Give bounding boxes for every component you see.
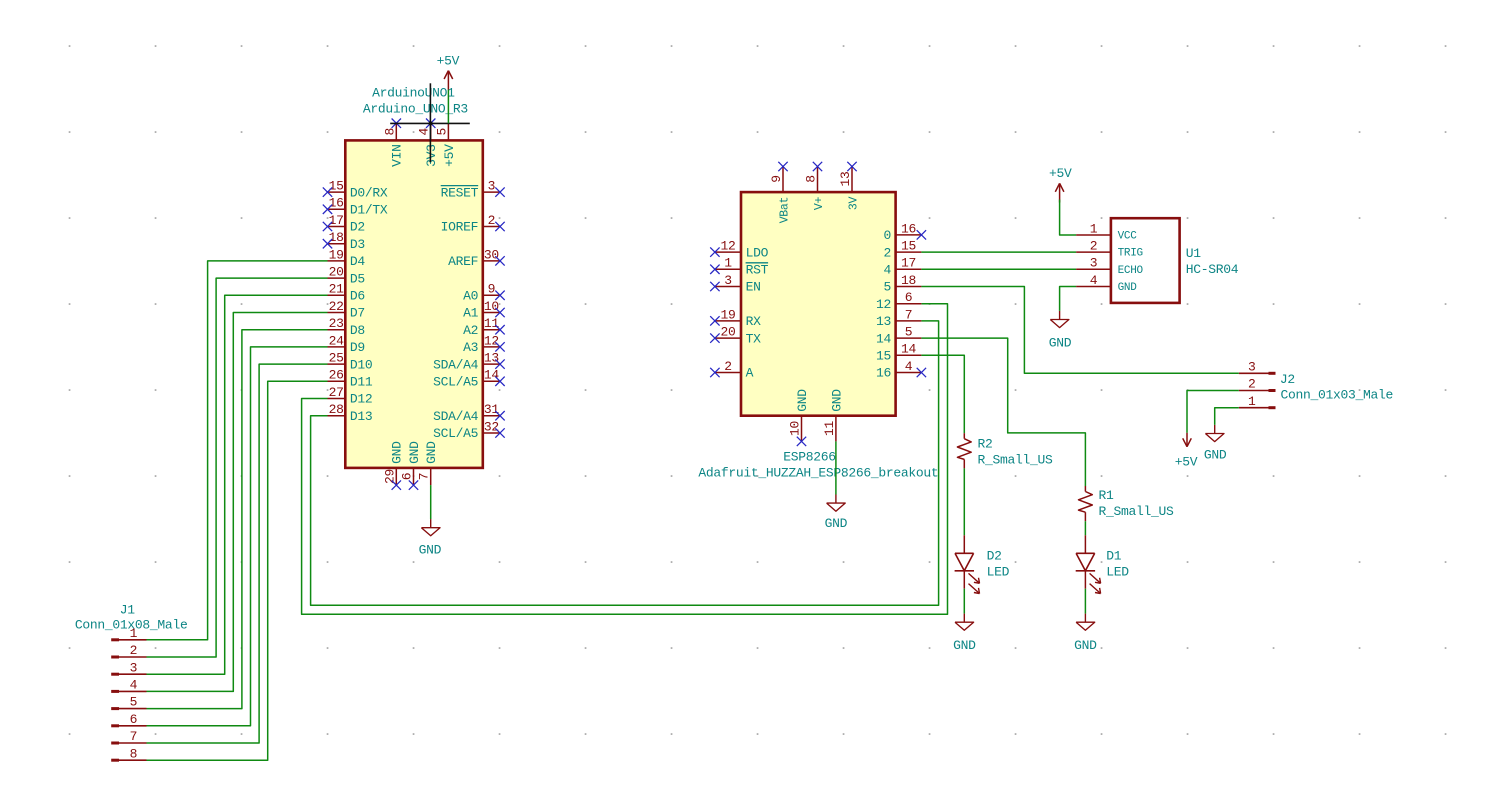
svg-text:14: 14 bbox=[876, 331, 892, 346]
svg-text:R_Small_US: R_Small_US bbox=[978, 452, 1054, 467]
power +5V symbol above U1 bbox=[1055, 183, 1064, 202]
GND label below ESP8266 bbox=[825, 516, 848, 531]
svg-text:1: 1 bbox=[1090, 221, 1098, 236]
svg-text:D2: D2 bbox=[350, 220, 365, 235]
ArduinoUNO1 left pins 15-28 (D0/RX..D13) bbox=[328, 192, 346, 416]
svg-text:LED: LED bbox=[1106, 564, 1129, 579]
power GND symbol below D1 bbox=[1076, 614, 1095, 631]
svg-text:10: 10 bbox=[788, 421, 803, 436]
svg-text:4: 4 bbox=[905, 359, 913, 374]
svg-text:5: 5 bbox=[883, 280, 891, 295]
ArduinoUNO1 bottom pin names GND GND GND bbox=[390, 441, 439, 464]
svg-text:3: 3 bbox=[1248, 359, 1256, 374]
svg-text:A0: A0 bbox=[463, 289, 478, 304]
component ESP8266 Adafruit_HUZZAH_ESP8266_breakout body bbox=[741, 192, 896, 416]
wire Arduino D10 (pin 25) to J1 pin 7 bbox=[147, 364, 328, 743]
svg-text:2: 2 bbox=[724, 359, 732, 374]
svg-text:5: 5 bbox=[130, 695, 138, 710]
ESP8266 bottom pin names GND GND bbox=[795, 389, 844, 412]
ESP8266 left pin numbers bbox=[720, 239, 735, 374]
svg-text:5: 5 bbox=[905, 325, 913, 340]
svg-text:30: 30 bbox=[484, 247, 499, 262]
svg-text:D3: D3 bbox=[350, 237, 365, 252]
svg-text:J2: J2 bbox=[1280, 372, 1295, 387]
black graphic line vertical through pin 4 bbox=[429, 83, 431, 162]
svg-text:R1: R1 bbox=[1099, 488, 1115, 503]
svg-text:16: 16 bbox=[329, 196, 344, 211]
svg-text:A2: A2 bbox=[463, 323, 478, 338]
svg-text:D11: D11 bbox=[350, 375, 373, 390]
LED D1 bbox=[1076, 535, 1101, 593]
svg-text:ArduinoUNO1: ArduinoUNO1 bbox=[372, 86, 455, 101]
svg-text:IOREF: IOREF bbox=[441, 220, 479, 235]
svg-text:A3: A3 bbox=[463, 340, 478, 355]
svg-text:GND: GND bbox=[795, 389, 810, 412]
svg-text:Arduino_UNO_R3: Arduino_UNO_R3 bbox=[363, 101, 468, 116]
U1 pin names VCC TRIG ECHO GND bbox=[1118, 231, 1144, 295]
svg-text:SCL/A5: SCL/A5 bbox=[433, 375, 478, 390]
junction dot at pin 4 crossing bbox=[429, 121, 433, 125]
svg-text:GND: GND bbox=[825, 516, 848, 531]
svg-text:4: 4 bbox=[883, 263, 891, 278]
svg-text:11: 11 bbox=[822, 420, 837, 436]
ArduinoUNO1 value label Arduino_UNO_R3 bbox=[363, 101, 468, 116]
ArduinoUNO1 right pin names (RESET with overline) bbox=[433, 185, 479, 441]
component J2 Conn_01x03_Male bbox=[1239, 372, 1276, 409]
ESP8266 top pins VBat V+ 3V bbox=[783, 167, 852, 193]
svg-text:J1: J1 bbox=[120, 603, 136, 618]
svg-text:GND: GND bbox=[1204, 447, 1227, 462]
svg-text:24: 24 bbox=[329, 333, 345, 348]
svg-text:R2: R2 bbox=[978, 437, 993, 452]
svg-text:6: 6 bbox=[905, 290, 913, 305]
ArduinoUNO1 top pin names VIN 3V3 +5V bbox=[390, 144, 457, 167]
svg-text:31: 31 bbox=[484, 402, 500, 417]
svg-text:D13: D13 bbox=[350, 409, 373, 424]
svg-text:15: 15 bbox=[329, 179, 344, 194]
svg-text:Conn_01x03_Male: Conn_01x03_Male bbox=[1281, 388, 1394, 403]
ESP8266 reference label bbox=[783, 450, 836, 465]
svg-text:EN: EN bbox=[746, 280, 761, 295]
ArduinoUNO1 right pin numbers bbox=[484, 179, 500, 435]
J2 reference label bbox=[1280, 372, 1295, 387]
component U1 HC-SR04 body bbox=[1111, 218, 1180, 303]
svg-text:D0/RX: D0/RX bbox=[350, 185, 388, 200]
D1 value label LED bbox=[1106, 564, 1129, 579]
R1 value label R_Small_US bbox=[1099, 504, 1175, 519]
svg-text:4: 4 bbox=[1090, 273, 1098, 288]
ESP8266 top pin numbers 9 8 13 bbox=[769, 171, 853, 186]
svg-text:D5: D5 bbox=[350, 271, 365, 286]
U1 value label HC-SR04 bbox=[1186, 262, 1239, 277]
svg-text:15: 15 bbox=[876, 349, 891, 364]
wire Arduino D11 (pin 26) to J1 pin 8 bbox=[147, 381, 328, 760]
J1 reference label bbox=[120, 603, 136, 618]
svg-text:7: 7 bbox=[905, 307, 913, 322]
power GND symbol below U1 bbox=[1050, 311, 1069, 328]
svg-text:21: 21 bbox=[329, 282, 345, 297]
ArduinoUNO1 reference label bbox=[372, 86, 455, 101]
svg-text:Adafruit_HUZZAH_ESP8266_breako: Adafruit_HUZZAH_ESP8266_breakout bbox=[698, 466, 938, 481]
+5V label above U1 bbox=[1049, 166, 1072, 181]
wire +5V to U1 VCC bbox=[1060, 200, 1077, 236]
wire Arduino D13 (pin 28) to ESP8266 pin 13 bbox=[311, 321, 939, 605]
wire J2 pin 2 to +5V bbox=[1187, 391, 1239, 433]
svg-text:RX: RX bbox=[746, 314, 762, 329]
U1 reference label bbox=[1186, 246, 1202, 261]
svg-text:RST: RST bbox=[746, 263, 769, 278]
svg-text:12: 12 bbox=[720, 239, 735, 254]
svg-text:27: 27 bbox=[329, 385, 344, 400]
svg-text:3: 3 bbox=[1090, 256, 1098, 271]
svg-text:GND: GND bbox=[829, 389, 844, 412]
svg-text:V+: V+ bbox=[813, 196, 826, 210]
no-connect x on ESP8266 left pins bbox=[710, 247, 719, 377]
svg-text:GND: GND bbox=[419, 543, 442, 558]
svg-text:+5V: +5V bbox=[1049, 166, 1072, 181]
wire ESP8266 pin 14 to R1 bbox=[921, 338, 1085, 486]
U1 pin numbers 1-4 bbox=[1090, 221, 1098, 288]
J1 value label Conn_01x08_Male bbox=[75, 618, 188, 633]
wire Arduino D4 (pin 19) to J1 pin 1 bbox=[147, 261, 328, 640]
wire LED D1 cathode to GND bbox=[1084, 589, 1086, 614]
wire +5V to Arduino pin 5 bbox=[447, 90, 449, 124]
svg-text:SCL/A5: SCL/A5 bbox=[433, 426, 478, 441]
svg-text:GND: GND bbox=[407, 441, 422, 464]
GND label for J2 pin 1 bbox=[1204, 447, 1227, 462]
svg-text:3: 3 bbox=[724, 273, 732, 288]
svg-text:VBat: VBat bbox=[778, 197, 791, 223]
ESP8266 bottom pins GND 10 11 bbox=[802, 416, 836, 442]
svg-text:2: 2 bbox=[1090, 239, 1098, 254]
svg-text:RESET: RESET bbox=[441, 185, 479, 200]
svg-text:6: 6 bbox=[400, 473, 415, 481]
svg-text:8: 8 bbox=[382, 128, 397, 136]
no-connect x on ArduinoUNO1 pins 15-18 bbox=[323, 187, 332, 248]
U1 pins VCC TRIG ECHO GND bbox=[1076, 235, 1111, 287]
svg-text:D9: D9 bbox=[350, 340, 365, 355]
D2 reference label bbox=[987, 549, 1002, 564]
svg-text:+5V: +5V bbox=[442, 144, 457, 167]
wire ESP8266 pin 5 to J2 pin 3 bbox=[921, 287, 1238, 374]
wire U1 GND pin to GND symbol bbox=[1060, 287, 1077, 311]
svg-text:D4: D4 bbox=[350, 254, 366, 269]
svg-text:7: 7 bbox=[417, 473, 432, 481]
J2 value label Conn_01x03_Male bbox=[1281, 388, 1394, 403]
ESP8266 left pins LDO RST EN RX TX A bbox=[715, 252, 741, 372]
no-connect x on ArduinoUNO1 pins 8 and 4 bbox=[392, 119, 436, 128]
resistor R2 bbox=[957, 433, 971, 468]
wire Arduino D7 (pin 22) to J1 pin 4 bbox=[147, 313, 328, 692]
svg-text:ESP8266: ESP8266 bbox=[783, 450, 836, 465]
svg-text:+5V: +5V bbox=[437, 53, 460, 68]
svg-text:1: 1 bbox=[724, 256, 732, 271]
ESP8266 value label Adafruit_HUZZAH_ESP8266_breakout bbox=[698, 466, 938, 481]
wire Arduino D6 (pin 21) to J1 pin 3 bbox=[147, 295, 328, 674]
svg-text:3V: 3V bbox=[847, 196, 860, 210]
svg-text:A1: A1 bbox=[463, 306, 479, 321]
resistor R1 bbox=[1079, 486, 1093, 521]
svg-text:16: 16 bbox=[901, 221, 916, 236]
ESP8266 right pin numbers bbox=[901, 221, 917, 374]
R1 reference label bbox=[1099, 488, 1115, 503]
svg-text:D2: D2 bbox=[987, 549, 1002, 564]
svg-text:28: 28 bbox=[329, 402, 344, 417]
GND label for U1 ground bbox=[1049, 336, 1072, 351]
svg-text:AREF: AREF bbox=[448, 254, 478, 269]
power +5V symbol (inverted) for J2 pin 2 bbox=[1183, 433, 1192, 447]
svg-text:HC-SR04: HC-SR04 bbox=[1186, 262, 1239, 277]
svg-text:D12: D12 bbox=[350, 392, 373, 407]
svg-text:D1: D1 bbox=[1106, 549, 1122, 564]
svg-text:+5V: +5V bbox=[1175, 454, 1198, 469]
svg-text:5: 5 bbox=[434, 128, 449, 136]
svg-text:D1/TX: D1/TX bbox=[350, 203, 388, 218]
svg-text:8: 8 bbox=[804, 175, 819, 183]
svg-text:19: 19 bbox=[329, 247, 344, 262]
svg-text:GND: GND bbox=[424, 441, 439, 464]
svg-text:8: 8 bbox=[130, 746, 138, 761]
GND label below D1 bbox=[1074, 638, 1097, 653]
svg-text:22: 22 bbox=[329, 299, 344, 314]
no-connect x on ESP8266 top pins bbox=[778, 162, 856, 171]
svg-text:VIN: VIN bbox=[390, 144, 405, 167]
svg-text:VCC: VCC bbox=[1118, 231, 1138, 243]
power GND symbol below D2 bbox=[955, 614, 974, 631]
wire R1 to LED D1 bbox=[1084, 521, 1086, 535]
LED D2 bbox=[955, 535, 980, 593]
svg-text:ECHO: ECHO bbox=[1118, 265, 1144, 277]
wire Arduino D5 (pin 20) to J1 pin 2 bbox=[147, 278, 328, 657]
+5V label below J2 pin 2 symbol bbox=[1175, 454, 1198, 469]
power GND symbol below ArduinoUNO1 bbox=[421, 519, 440, 536]
svg-text:SDA/A4: SDA/A4 bbox=[433, 357, 479, 372]
svg-text:D8: D8 bbox=[350, 323, 365, 338]
svg-text:4: 4 bbox=[417, 128, 432, 136]
power GND symbol below ESP8266 bbox=[827, 495, 846, 512]
wire ESP8266 pin 11 to GND bbox=[835, 441, 837, 494]
wire Arduino D8 (pin 23) to J1 pin 5 bbox=[147, 330, 328, 709]
svg-text:19: 19 bbox=[720, 307, 735, 322]
svg-text:18: 18 bbox=[329, 230, 344, 245]
ArduinoUNO1 left pin numbers 15-28 bbox=[329, 179, 345, 418]
wire ESP8266 pin 4 to U1 ECHO bbox=[921, 268, 1076, 270]
svg-text:D10: D10 bbox=[350, 357, 373, 372]
svg-text:D6: D6 bbox=[350, 289, 365, 304]
svg-text:26: 26 bbox=[329, 368, 344, 383]
J2 pin numbers 3 2 1 bbox=[1248, 359, 1256, 408]
svg-text:11: 11 bbox=[484, 316, 500, 331]
no-connect x on ESP8266 pin 10 bbox=[797, 437, 806, 446]
D2 value label LED bbox=[987, 564, 1010, 579]
svg-text:2: 2 bbox=[130, 643, 138, 658]
svg-text:TX: TX bbox=[746, 331, 762, 346]
wire Arduino D9 (pin 24) to J1 pin 6 bbox=[147, 347, 328, 726]
svg-text:0: 0 bbox=[883, 228, 891, 243]
svg-text:6: 6 bbox=[130, 712, 138, 727]
svg-text:16: 16 bbox=[876, 366, 891, 381]
svg-text:13: 13 bbox=[838, 171, 853, 186]
svg-text:2: 2 bbox=[1248, 377, 1256, 392]
svg-text:17: 17 bbox=[901, 256, 916, 271]
svg-text:14: 14 bbox=[901, 342, 917, 357]
no-connect x on ArduinoUNO1 right pins bbox=[495, 187, 504, 437]
ArduinoUNO1 top pin numbers 8 4 5 bbox=[382, 128, 449, 136]
svg-text:10: 10 bbox=[484, 299, 499, 314]
svg-text:4: 4 bbox=[130, 678, 138, 693]
svg-text:2: 2 bbox=[488, 213, 496, 228]
wire Arduino D12 (pin 27) to ESP8266 pin 12 bbox=[302, 304, 948, 615]
svg-text:12: 12 bbox=[876, 297, 891, 312]
ArduinoUNO1 bottom pin numbers 29 6 7 bbox=[382, 469, 431, 484]
ESP8266 top pin names VBat V+ 3V bbox=[778, 196, 860, 223]
svg-text:GND: GND bbox=[953, 638, 976, 653]
svg-text:U1: U1 bbox=[1186, 246, 1202, 261]
svg-text:3: 3 bbox=[130, 660, 138, 675]
svg-text:1: 1 bbox=[1248, 394, 1256, 409]
svg-text:LED: LED bbox=[987, 564, 1010, 579]
wire LED D2 cathode to GND bbox=[963, 589, 965, 614]
svg-text:12: 12 bbox=[484, 333, 499, 348]
R2 value label R_Small_US bbox=[978, 452, 1054, 467]
J1 pin numbers 1-8 bbox=[130, 626, 138, 761]
wire ESP8266 pin 15 to R2 bbox=[921, 355, 964, 433]
svg-text:7: 7 bbox=[130, 729, 138, 744]
svg-text:GND: GND bbox=[1049, 336, 1072, 351]
svg-text:3V3: 3V3 bbox=[424, 144, 439, 167]
svg-text:9: 9 bbox=[488, 282, 496, 297]
GND label below D2 bbox=[953, 638, 976, 653]
svg-text:18: 18 bbox=[901, 273, 916, 288]
ESP8266 right pin names bbox=[876, 228, 892, 381]
svg-text:17: 17 bbox=[329, 213, 344, 228]
svg-text:32: 32 bbox=[484, 419, 499, 434]
component J1 Conn_01x08_Male bbox=[111, 638, 146, 761]
svg-text:GND: GND bbox=[390, 441, 405, 464]
svg-text:LDO: LDO bbox=[746, 245, 769, 260]
svg-text:20: 20 bbox=[720, 325, 735, 340]
wire ESP8266 pin 2 to U1 TRIG bbox=[921, 251, 1076, 253]
svg-text:3: 3 bbox=[488, 179, 496, 194]
black graphic line horizontal over Arduino top pins bbox=[390, 122, 470, 124]
svg-text:2: 2 bbox=[883, 245, 891, 260]
D1 reference label bbox=[1106, 549, 1122, 564]
wire J2 pin 1 to GND bbox=[1215, 408, 1239, 425]
ArduinoUNO1 left pin names D0/RX..D13 bbox=[350, 185, 388, 424]
svg-text:GND: GND bbox=[1074, 638, 1097, 653]
ESP8266 left pin names (RST with overline) bbox=[746, 245, 769, 380]
wire R2 to LED D2 bbox=[963, 468, 965, 535]
power GND symbol for J2 pin 1 bbox=[1205, 425, 1224, 442]
no-connect x on ArduinoUNO1 pins 29 and 6 bbox=[392, 480, 419, 489]
wire Arduino pin 7 to GND bbox=[430, 485, 432, 519]
svg-text:R_Small_US: R_Small_US bbox=[1099, 504, 1175, 519]
no-connect x on ESP8266 pins 0 and 16 bbox=[917, 230, 926, 377]
component ArduinoUNO1 Arduino_UNO_R3 body bbox=[345, 140, 483, 468]
svg-text:29: 29 bbox=[382, 469, 397, 484]
svg-text:GND: GND bbox=[1118, 282, 1138, 294]
svg-text:13: 13 bbox=[484, 351, 499, 366]
ArduinoUNO1 bottom pins GND 29 6 7 bbox=[396, 468, 430, 485]
svg-text:13: 13 bbox=[876, 314, 891, 329]
ESP8266 bottom pin numbers 10 11 bbox=[788, 420, 837, 436]
power +5V symbol above ArduinoUNO1 bbox=[444, 71, 453, 90]
GND label below ArduinoUNO1 bbox=[419, 543, 442, 558]
svg-text:SDA/A4: SDA/A4 bbox=[433, 409, 479, 424]
ArduinoUNO1 right pins RESET..SCL/A5 bbox=[483, 192, 500, 433]
+5V label above ArduinoUNO1 bbox=[437, 53, 460, 68]
svg-text:14: 14 bbox=[484, 368, 500, 383]
R2 reference label bbox=[978, 437, 993, 452]
svg-text:1: 1 bbox=[130, 626, 138, 641]
svg-text:A: A bbox=[746, 366, 754, 381]
svg-text:9: 9 bbox=[769, 175, 784, 183]
ArduinoUNO1 top pins VIN 3V3 +5V bbox=[396, 123, 448, 140]
svg-text:20: 20 bbox=[329, 265, 344, 280]
svg-text:25: 25 bbox=[329, 351, 344, 366]
svg-text:TRIG: TRIG bbox=[1118, 248, 1143, 260]
svg-text:15: 15 bbox=[901, 239, 916, 254]
ESP8266 right pins 0..16 bbox=[896, 235, 922, 373]
svg-text:D7: D7 bbox=[350, 306, 365, 321]
svg-text:23: 23 bbox=[329, 316, 344, 331]
